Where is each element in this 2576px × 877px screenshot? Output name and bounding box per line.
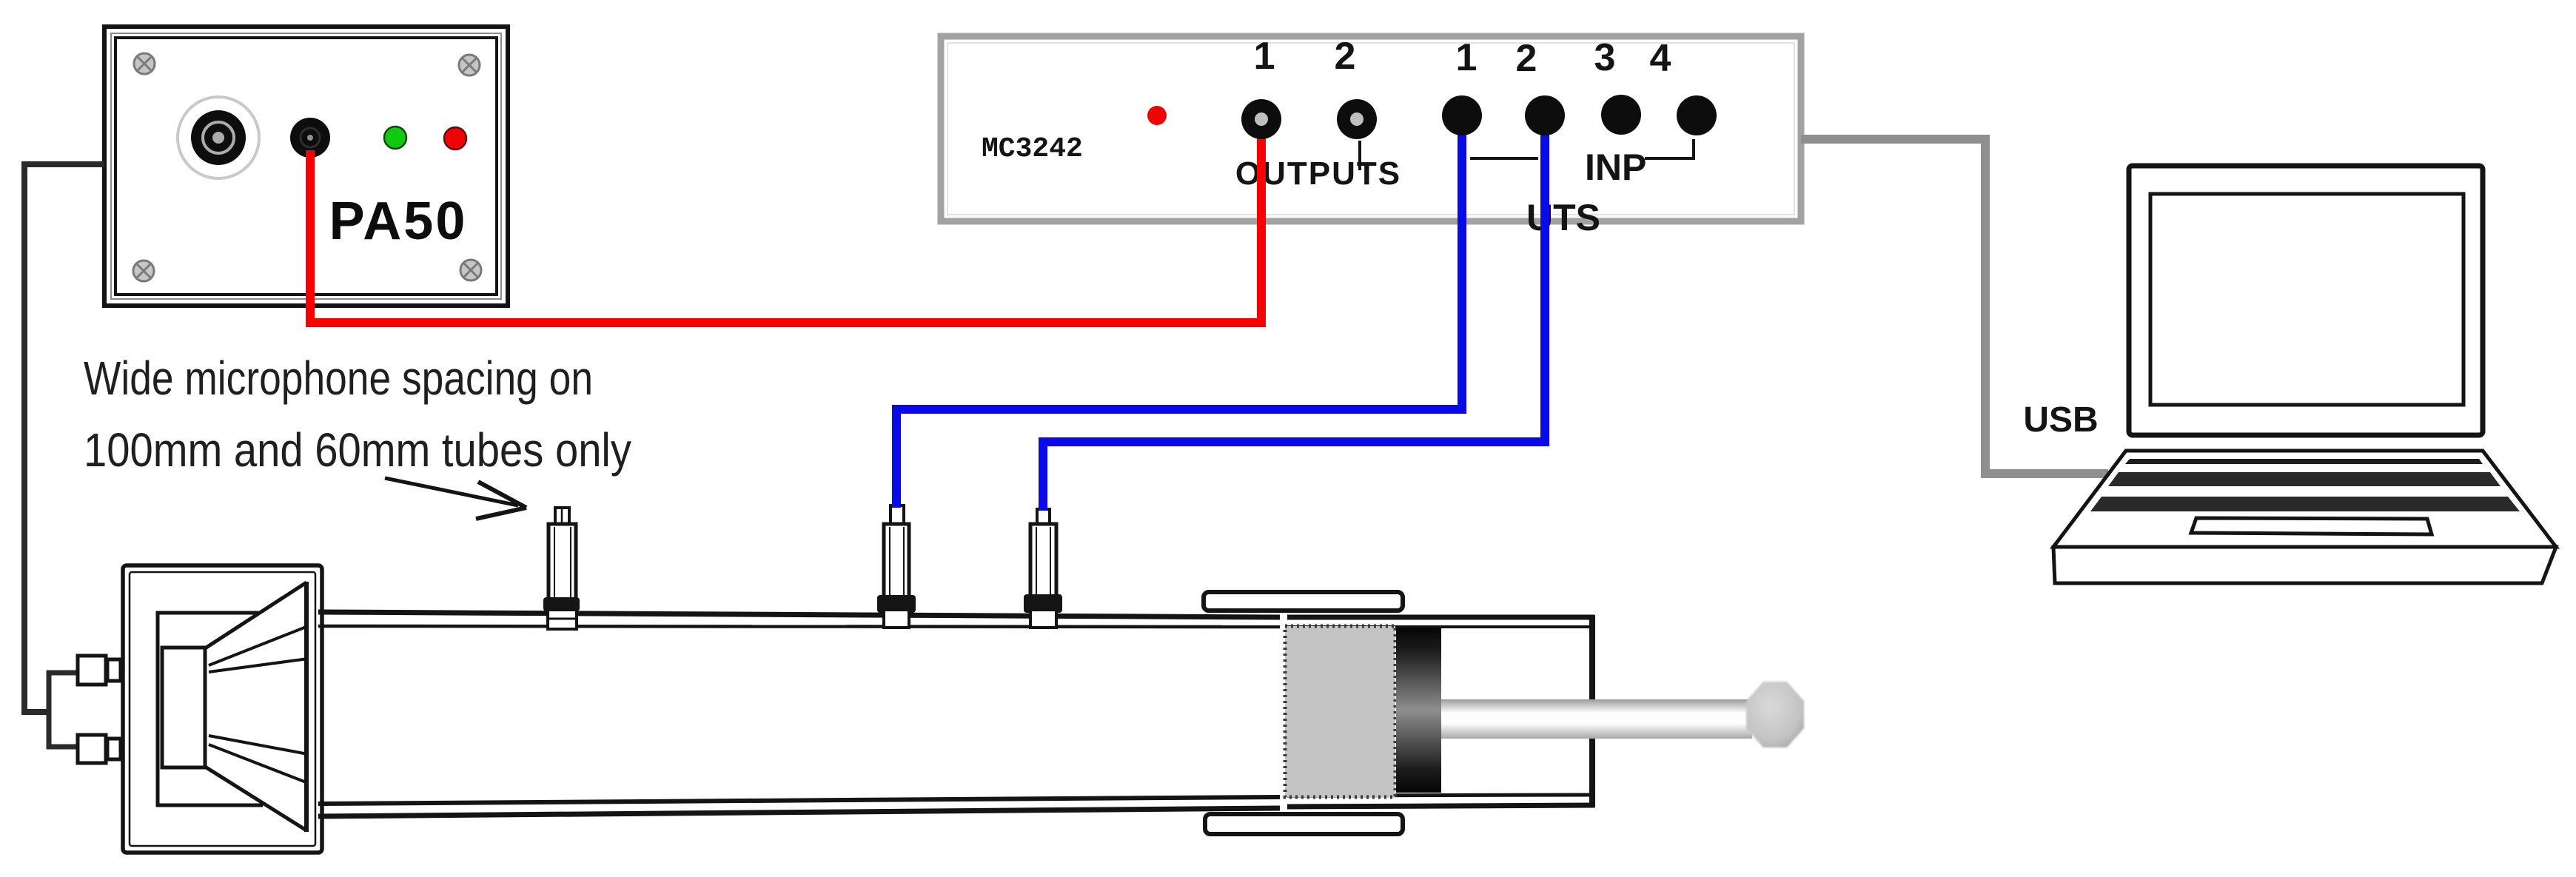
blue wire from MC3242 input 2 to microphone 3 (1043, 130, 1545, 511)
output jack 1 (1241, 99, 1281, 139)
loudspeaker terminal post 2 (78, 735, 121, 763)
label OUTPUTS with leader line to output jack 2 (1235, 141, 1401, 192)
red signal wire from MC3242 output 1 to PA50 input (310, 122, 1261, 323)
input jack 4 (1677, 95, 1717, 135)
laptop front face (2053, 547, 2556, 583)
input jack 2 (1525, 95, 1565, 135)
svg-text:100mm and 60mm tubes only: 100mm and 60mm tubes only (84, 423, 631, 477)
screw bottom-right (460, 260, 481, 280)
grey USB wire from MC3242 to laptop (1801, 139, 2108, 474)
screw top-left (134, 53, 155, 74)
laptop screen (2129, 166, 2483, 435)
piston knob (octagon) (1746, 682, 1804, 747)
svg-text:MC3242: MC3242 (982, 133, 1083, 165)
amplifier PA50 box frame (104, 27, 508, 306)
svg-text:UTS: UTS (1526, 197, 1600, 238)
svg-text:2: 2 (1516, 37, 1537, 80)
svg-text:1: 1 (1456, 36, 1477, 79)
laptop base deck (2053, 451, 2556, 547)
loudspeaker terminal post 1 (78, 656, 121, 685)
microphone 2 (877, 505, 916, 628)
loudspeaker cabinet (123, 565, 322, 853)
leader line between input jacks 1 and 2 (1470, 157, 1538, 160)
impedance tube main section walls (318, 612, 1280, 816)
red LED on PA50 (444, 127, 466, 149)
piston housing tube section (1287, 615, 1594, 807)
input connector (small) on PA50 (290, 118, 330, 158)
svg-text:PA50: PA50 (329, 192, 468, 251)
screw top-right (459, 55, 480, 75)
laptop keyboard row 2 (2108, 472, 2500, 486)
svg-text:USB: USB (2023, 400, 2098, 440)
svg-text:4: 4 (1650, 37, 1671, 80)
speaker output connector (large) on PA50 (178, 97, 259, 178)
microphone 3 (1024, 509, 1062, 628)
sample block (grey, dotted outline) (1285, 626, 1395, 797)
piston head (dark gradient) (1396, 628, 1441, 793)
red LED on MC3242 (1147, 106, 1167, 125)
MC3242 interface box (941, 36, 1801, 221)
svg-text:Wide microphone spacing on: Wide microphone spacing on (84, 352, 593, 405)
blue wire from MC3242 input 1 to microphone 2 (896, 130, 1462, 508)
black speaker wire from PA50 to loudspeaker terminals (24, 164, 104, 749)
annotation arrow to microphone 1 (385, 478, 526, 519)
svg-text:2: 2 (1335, 35, 1356, 78)
microphone 1 (wide spacing port, unused) (543, 508, 580, 629)
clamp plate top (1204, 592, 1403, 611)
output jack 2 (1337, 99, 1377, 139)
clamp plate bottom (1205, 814, 1403, 834)
piston rod (1441, 699, 1752, 739)
svg-text:1: 1 (1254, 35, 1275, 78)
screw bottom-left (133, 261, 154, 281)
laptop keyboard row 1 (2125, 459, 2483, 464)
laptop touchpad (2191, 518, 2432, 534)
label INP with leader line to input jack 4 (1585, 139, 1694, 188)
input jack 3 (1601, 95, 1641, 135)
input jack 1 (1442, 95, 1482, 135)
svg-text:INP: INP (1585, 147, 1646, 188)
loudspeaker driver (158, 582, 308, 832)
green LED on PA50 (384, 127, 406, 149)
svg-text:3: 3 (1594, 36, 1616, 79)
laptop keyboard row 3 (2090, 497, 2520, 511)
